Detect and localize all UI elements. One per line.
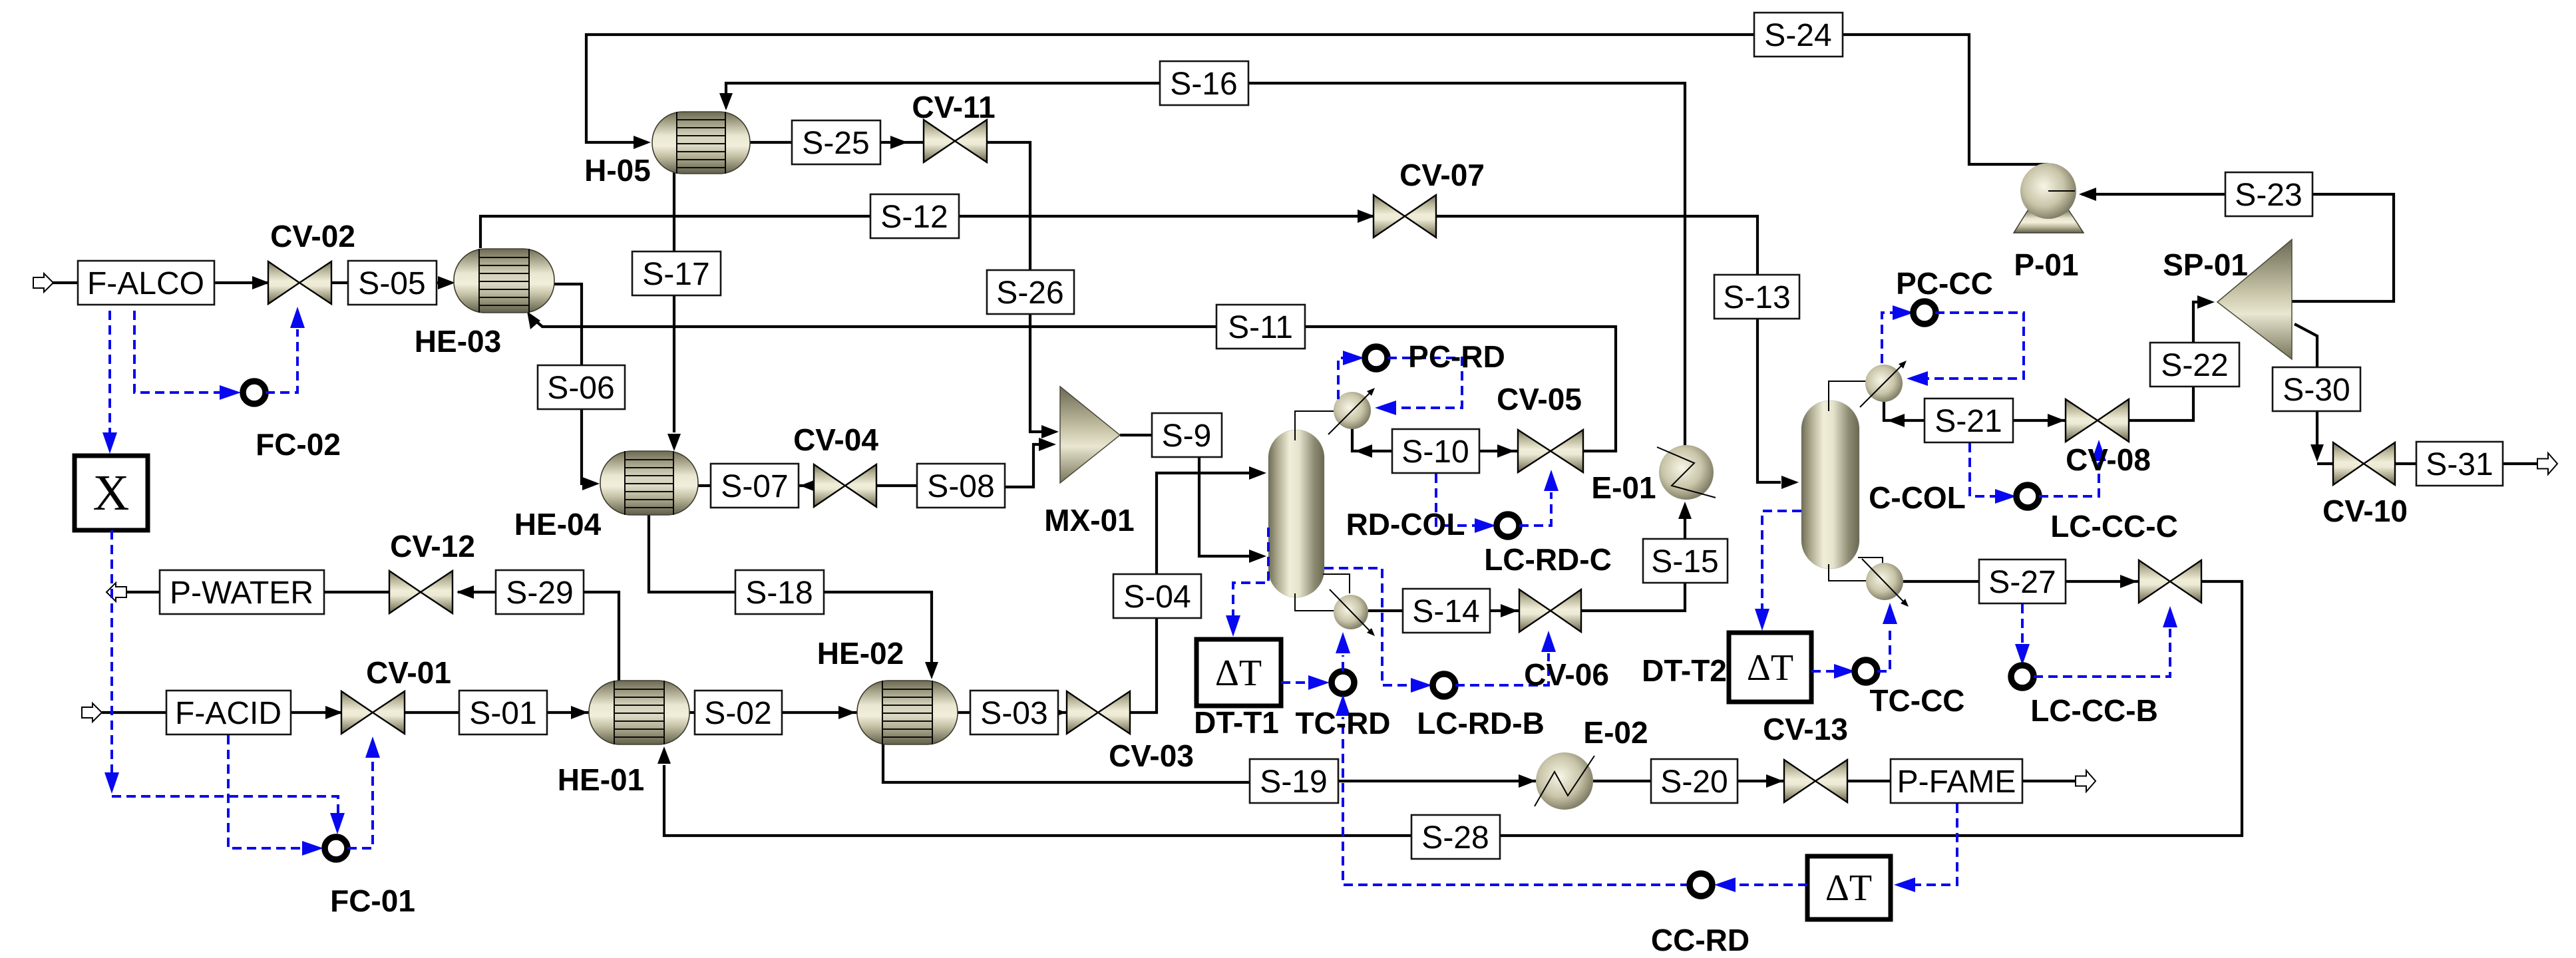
pump P-01: [2014, 163, 2084, 233]
controller FC-02: [243, 381, 266, 404]
stream label P-WATER: [160, 570, 324, 614]
product arrow S-31: [2537, 453, 2557, 474]
svg-text:S-06: S-06: [547, 371, 614, 406]
svg-text:S-25: S-25: [802, 126, 869, 161]
stream label S-05: [348, 261, 437, 305]
RD-COL condenser link: [1295, 411, 1335, 440]
wire S-23 SP-01 to P-01: [2079, 188, 2394, 301]
svg-text:CV-05: CV-05: [1497, 382, 1582, 416]
signal LC-RD-C to CV-05: [1519, 470, 1559, 526]
wire S-04 CV-03 outlet up to RD-COL upper inlet: [1130, 466, 1266, 713]
signal C-COL to DT-T2: [1755, 511, 1801, 631]
wire S-03 HE-02 to CV-03: [958, 706, 1067, 719]
svg-text:S-08: S-08: [927, 469, 994, 504]
svg-text:E-02: E-02: [1583, 715, 1648, 750]
valve CV-02: [268, 261, 331, 304]
valve CV-03: [1067, 691, 1130, 734]
signal RD-COL bottoms to LC-RD-B: [1324, 568, 1432, 693]
svg-text:S-14: S-14: [1412, 594, 1479, 629]
svg-text:S-20: S-20: [1660, 764, 1728, 800]
svg-text:ΔT: ΔT: [1747, 647, 1793, 689]
stream label S-29: [496, 570, 584, 614]
delta-T block DT-T2: [1729, 633, 1811, 702]
stream label S-23: [2225, 172, 2312, 216]
svg-text:CV-13: CV-13: [1763, 712, 1848, 746]
svg-text:S-23: S-23: [2235, 178, 2302, 213]
wire S-21 C-COL condenser to CV-08 to S-22 to SP-01: [1884, 295, 2215, 427]
svg-text:P-FAME: P-FAME: [1897, 764, 2016, 800]
svg-text:P-WATER: P-WATER: [170, 575, 313, 611]
wire S-25 H-05 to CV-11: [750, 136, 924, 149]
stream label S-03: [970, 691, 1058, 734]
svg-text:CV-08: CV-08: [2066, 442, 2151, 477]
stream label S-15: [1643, 539, 1728, 583]
wire S-17 H-05 bottom to HE-04 top: [667, 172, 681, 451]
wire S-29 HE-01 top to CV-12 to P-WATER: [126, 585, 619, 681]
stream label S-17: [632, 251, 721, 295]
signal LC-CC-C to CV-08: [2039, 440, 2106, 496]
svg-text:CV-07: CV-07: [1399, 158, 1485, 192]
feed arrow F-ACID: [82, 703, 102, 722]
svg-text:CV-12: CV-12: [390, 529, 475, 563]
stream label S-26: [987, 270, 1074, 314]
wire S-26 CV-11 to MX-01 upper inlet: [987, 142, 1059, 438]
heat exchanger HE-02: [857, 681, 958, 744]
stream label S-21: [1925, 399, 2013, 442]
column C-COL shell: [1801, 400, 1859, 569]
signal RD condenser to PC-RD: [1338, 351, 1364, 399]
svg-text:SP-01: SP-01: [2163, 247, 2248, 282]
signal C-COL condenser to PC-CC: [1882, 305, 1914, 363]
svg-text:H-05: H-05: [584, 153, 651, 188]
controller TC-RD: [1332, 671, 1354, 694]
svg-text:S-01: S-01: [469, 696, 536, 731]
stream label S-02: [695, 691, 782, 734]
wire S-27 C-COL reboiler to CV-09: [1903, 575, 2139, 588]
svg-text:MX-01: MX-01: [1044, 503, 1134, 538]
svg-text:S-10: S-10: [1401, 434, 1469, 470]
stream label S-01: [459, 691, 547, 734]
product arrow P-WATER: [106, 583, 126, 601]
signal S-21 to LC-CC-C: [1970, 443, 2016, 504]
svg-text:LC-CC-C: LC-CC-C: [2050, 509, 2178, 544]
svg-text:S-15: S-15: [1651, 544, 1718, 579]
C-COL reboiler: [1862, 559, 1909, 607]
stream label S-28: [1411, 815, 1500, 859]
C-COL condenser link: [1829, 381, 1867, 411]
stream label S-18: [735, 570, 824, 614]
svg-text:S-03: S-03: [980, 696, 1047, 731]
svg-text:S-18: S-18: [745, 575, 813, 611]
svg-text:S-17: S-17: [642, 257, 709, 292]
stream label S-04: [1113, 574, 1201, 618]
svg-text:CV-06: CV-06: [1524, 657, 1609, 692]
svg-text:CV-01: CV-01: [366, 655, 451, 690]
delta-T block DT-T1: [1196, 639, 1281, 706]
signal DT-T1 to TC-RD: [1281, 675, 1330, 690]
valve CV-12: [389, 571, 453, 613]
svg-text:HE-03: HE-03: [415, 324, 501, 359]
svg-text:S-07: S-07: [721, 469, 788, 504]
wire S-06 HE-03 right down to HE-04 left: [554, 284, 600, 490]
signal RD-COL to DT-T1: [1226, 528, 1268, 637]
stream label S-10: [1392, 429, 1479, 473]
svg-text:LC-CC-B: LC-CC-B: [2030, 693, 2158, 728]
wire S-24 recycle line P-01 to H-05: [586, 35, 2048, 164]
multiplier block X: [75, 456, 148, 530]
wire S-28 CV-09 outlet down and left to HE-01 bottom: [657, 581, 2242, 836]
stream label S-31: [2416, 442, 2503, 486]
svg-text:S-29: S-29: [506, 575, 573, 611]
signal TC-CC to C-COL reboiler: [1877, 603, 1897, 671]
signal TC-RD to RD reboiler: [1336, 632, 1350, 671]
valve CV-04: [814, 464, 876, 507]
wire S-10 condenser to CV-05: [1352, 428, 1518, 458]
stream label S-07: [711, 464, 799, 508]
controller PC-RD: [1365, 347, 1387, 369]
signal P-FAME to delta-T: [1894, 804, 1957, 892]
valve CV-07: [1374, 195, 1436, 238]
svg-text:CV-02: CV-02: [270, 219, 355, 253]
wire S-07 HE-04 to CV-04: [697, 479, 917, 492]
signal PC-RD to RD condenser: [1375, 358, 1462, 415]
valve CV-08: [2066, 399, 2129, 442]
svg-text:RD-COL: RD-COL: [1346, 507, 1465, 542]
stream label S-20: [1651, 759, 1738, 803]
svg-text:FC-01: FC-01: [330, 883, 415, 918]
controller TC-CC: [1855, 660, 1877, 683]
valve CV-10: [2333, 442, 2395, 485]
svg-text:CV-11: CV-11: [912, 90, 995, 124]
stream label S-25: [792, 120, 880, 164]
heat exchanger HE-03: [454, 249, 554, 313]
stream label P-FAME: [1891, 759, 2022, 803]
svg-text:ΔT: ΔT: [1825, 868, 1872, 909]
svg-text:E-01: E-01: [1591, 470, 1656, 505]
stream label S-11: [1216, 305, 1305, 349]
RD-COL reboiler: [1330, 589, 1375, 636]
svg-text:PC-CC: PC-CC: [1896, 266, 1993, 301]
C-COL reboiler links: [1829, 558, 1883, 581]
wire S-16 line E-01 top to H-05 top: [719, 83, 1685, 447]
controller LC-CC-C: [2016, 485, 2039, 508]
wire F-ACID feed row to HE-01: [102, 706, 589, 719]
stream label S-22: [2150, 343, 2239, 387]
svg-text:FC-02: FC-02: [256, 427, 341, 462]
heat exchanger HE-01: [589, 681, 689, 744]
svg-text:CC-RD: CC-RD: [1651, 923, 1749, 957]
RD-COL condenser: [1328, 388, 1375, 434]
RD-COL reboiler links: [1295, 574, 1350, 611]
svg-text:PC-RD: PC-RD: [1408, 339, 1505, 374]
signal FC-01 to CV-01: [347, 736, 380, 848]
svg-text:S-27: S-27: [1988, 565, 2056, 600]
C-COL condenser: [1860, 361, 1907, 407]
wire S-08 to MX-01 lower inlet: [1005, 438, 1056, 487]
svg-text:HE-01: HE-01: [558, 762, 644, 797]
svg-text:S-16: S-16: [1170, 67, 1237, 102]
splitter SP-01: [2217, 239, 2292, 359]
stream label S-16: [1160, 61, 1248, 105]
svg-text:S-31: S-31: [2426, 447, 2493, 482]
svg-text:S-11: S-11: [1228, 310, 1293, 345]
product arrow P-FAME: [2076, 770, 2096, 792]
stream label S-27: [1979, 559, 2066, 603]
valve CV-05: [1518, 430, 1583, 472]
svg-text:S-13: S-13: [1723, 280, 1790, 315]
stream label S-13: [1714, 275, 1799, 319]
stream label S-30: [2273, 367, 2360, 411]
svg-text:P-01: P-01: [2014, 247, 2078, 282]
signal CC-RD to TC-RD: [1336, 695, 1690, 885]
wire S-19 HE-02 bottom to E-02: [883, 744, 1537, 788]
svg-text:S-04: S-04: [1123, 579, 1191, 615]
wire S-9 MX-01 to RD-COL lower inlet: [1120, 435, 1266, 563]
svg-text:S-24: S-24: [1764, 18, 1831, 53]
svg-text:TC-RD: TC-RD: [1295, 706, 1390, 740]
wire S-30 SP-01 to CV-10 to S-31 product: [2295, 324, 2537, 464]
stream label F-ALCO: [78, 261, 214, 305]
svg-text:CV-04: CV-04: [793, 422, 878, 457]
valve CV-13: [1784, 760, 1847, 802]
mixer MX-01: [1060, 387, 1120, 483]
svg-text:S-28: S-28: [1421, 820, 1489, 856]
svg-text:X: X: [93, 465, 130, 521]
svg-text:S-26: S-26: [996, 275, 1063, 311]
svg-text:S-21: S-21: [1934, 404, 2002, 439]
wire F-ALCO feed row to HE-03: [52, 276, 455, 289]
svg-text:HE-04: HE-04: [514, 507, 602, 542]
svg-text:TC-CC: TC-CC: [1869, 683, 1964, 718]
svg-text:HE-02: HE-02: [817, 636, 904, 671]
svg-text:F-ACID: F-ACID: [175, 696, 281, 731]
svg-text:ΔT: ΔT: [1215, 653, 1262, 694]
stream label F-ACID: [166, 691, 291, 734]
svg-text:S-05: S-05: [358, 266, 425, 301]
signal LC-RD-B to CV-06: [1455, 631, 1556, 685]
signal FC-02 to CV-02: [266, 307, 305, 393]
svg-text:S-30: S-30: [2283, 373, 2350, 408]
delta-T block CC-RD input: [1807, 856, 1891, 919]
svg-text:S-19: S-19: [1260, 764, 1327, 800]
stream label S-12: [870, 194, 959, 238]
svg-text:S-02: S-02: [704, 696, 771, 731]
column RD-COL shell: [1268, 430, 1324, 597]
signal F-ACID to FC-01: [228, 735, 323, 856]
signal S-27 to LC-CC-B: [2015, 604, 2030, 665]
wire S-20 E-02 to CV-13 to P-FAME to product: [1593, 774, 2076, 788]
svg-text:DT-T1: DT-T1: [1194, 705, 1279, 740]
controller CC-RD: [1690, 874, 1712, 896]
wire S-14 RD-COL reboiler to CV-06 to E-01: [1368, 502, 1692, 617]
valve CV-09: [2139, 560, 2201, 603]
stream label S-08: [917, 464, 1005, 508]
valve CV-06: [1519, 589, 1581, 632]
heater H-05: [652, 112, 750, 174]
signal delta-T to CC-RD: [1714, 878, 1807, 892]
heat exchanger HE-04: [600, 451, 698, 515]
wire S-02 HE-01 to HE-02: [689, 706, 857, 719]
stream label S-9: [1152, 413, 1222, 457]
svg-text:C-COL: C-COL: [1869, 480, 1966, 515]
feed arrow F-ALCO: [33, 273, 53, 292]
svg-text:S-9: S-9: [1162, 418, 1212, 454]
controller PC-CC: [1913, 301, 1936, 324]
svg-text:CV-10: CV-10: [2322, 494, 2408, 528]
signal DT-T2 to TC-CC: [1811, 664, 1855, 679]
svg-text:S-22: S-22: [2161, 348, 2228, 383]
signal PC-CC to C-COL condenser: [1907, 313, 2024, 386]
svg-text:S-12: S-12: [880, 200, 948, 235]
wire S-11 CV-05 outlet up and left to HE-03 bottom: [527, 311, 1616, 451]
controller LC-RD-C: [1497, 514, 1519, 537]
signal F-ALCO to FC-02: [134, 311, 241, 400]
controller FC-01: [325, 837, 347, 860]
stream label S-14: [1403, 589, 1490, 633]
cooler E-02: [1535, 752, 1594, 810]
wire S-12 HE-03 top to CV-07 to S-13 to C-COL: [480, 210, 1799, 489]
controller LC-RD-B: [1433, 674, 1455, 697]
wire S-18 HE-04 bottom to HE-02 top: [649, 515, 938, 679]
signal F-ALCO to X: [102, 311, 117, 454]
svg-text:LC-RD-C: LC-RD-C: [1484, 542, 1612, 577]
signal LC-CC-B to CV-09: [2034, 606, 2177, 677]
svg-text:LC-RD-B: LC-RD-B: [1417, 706, 1545, 740]
signal X to FC-01 junction: [104, 530, 345, 834]
valve CV-11: [924, 120, 987, 162]
stream label S-24: [1754, 13, 1843, 57]
valve CV-01: [341, 691, 405, 734]
svg-text:DT-T2: DT-T2: [1642, 653, 1727, 688]
signal S-10 to LC-RD-C: [1436, 474, 1496, 533]
svg-text:CV-03: CV-03: [1109, 738, 1194, 773]
stream label S-19: [1250, 759, 1338, 803]
svg-text:F-ALCO: F-ALCO: [87, 266, 204, 301]
controller LC-CC-B: [2011, 665, 2034, 688]
stream label S-06: [538, 365, 625, 409]
heater E-01: [1657, 445, 1716, 500]
